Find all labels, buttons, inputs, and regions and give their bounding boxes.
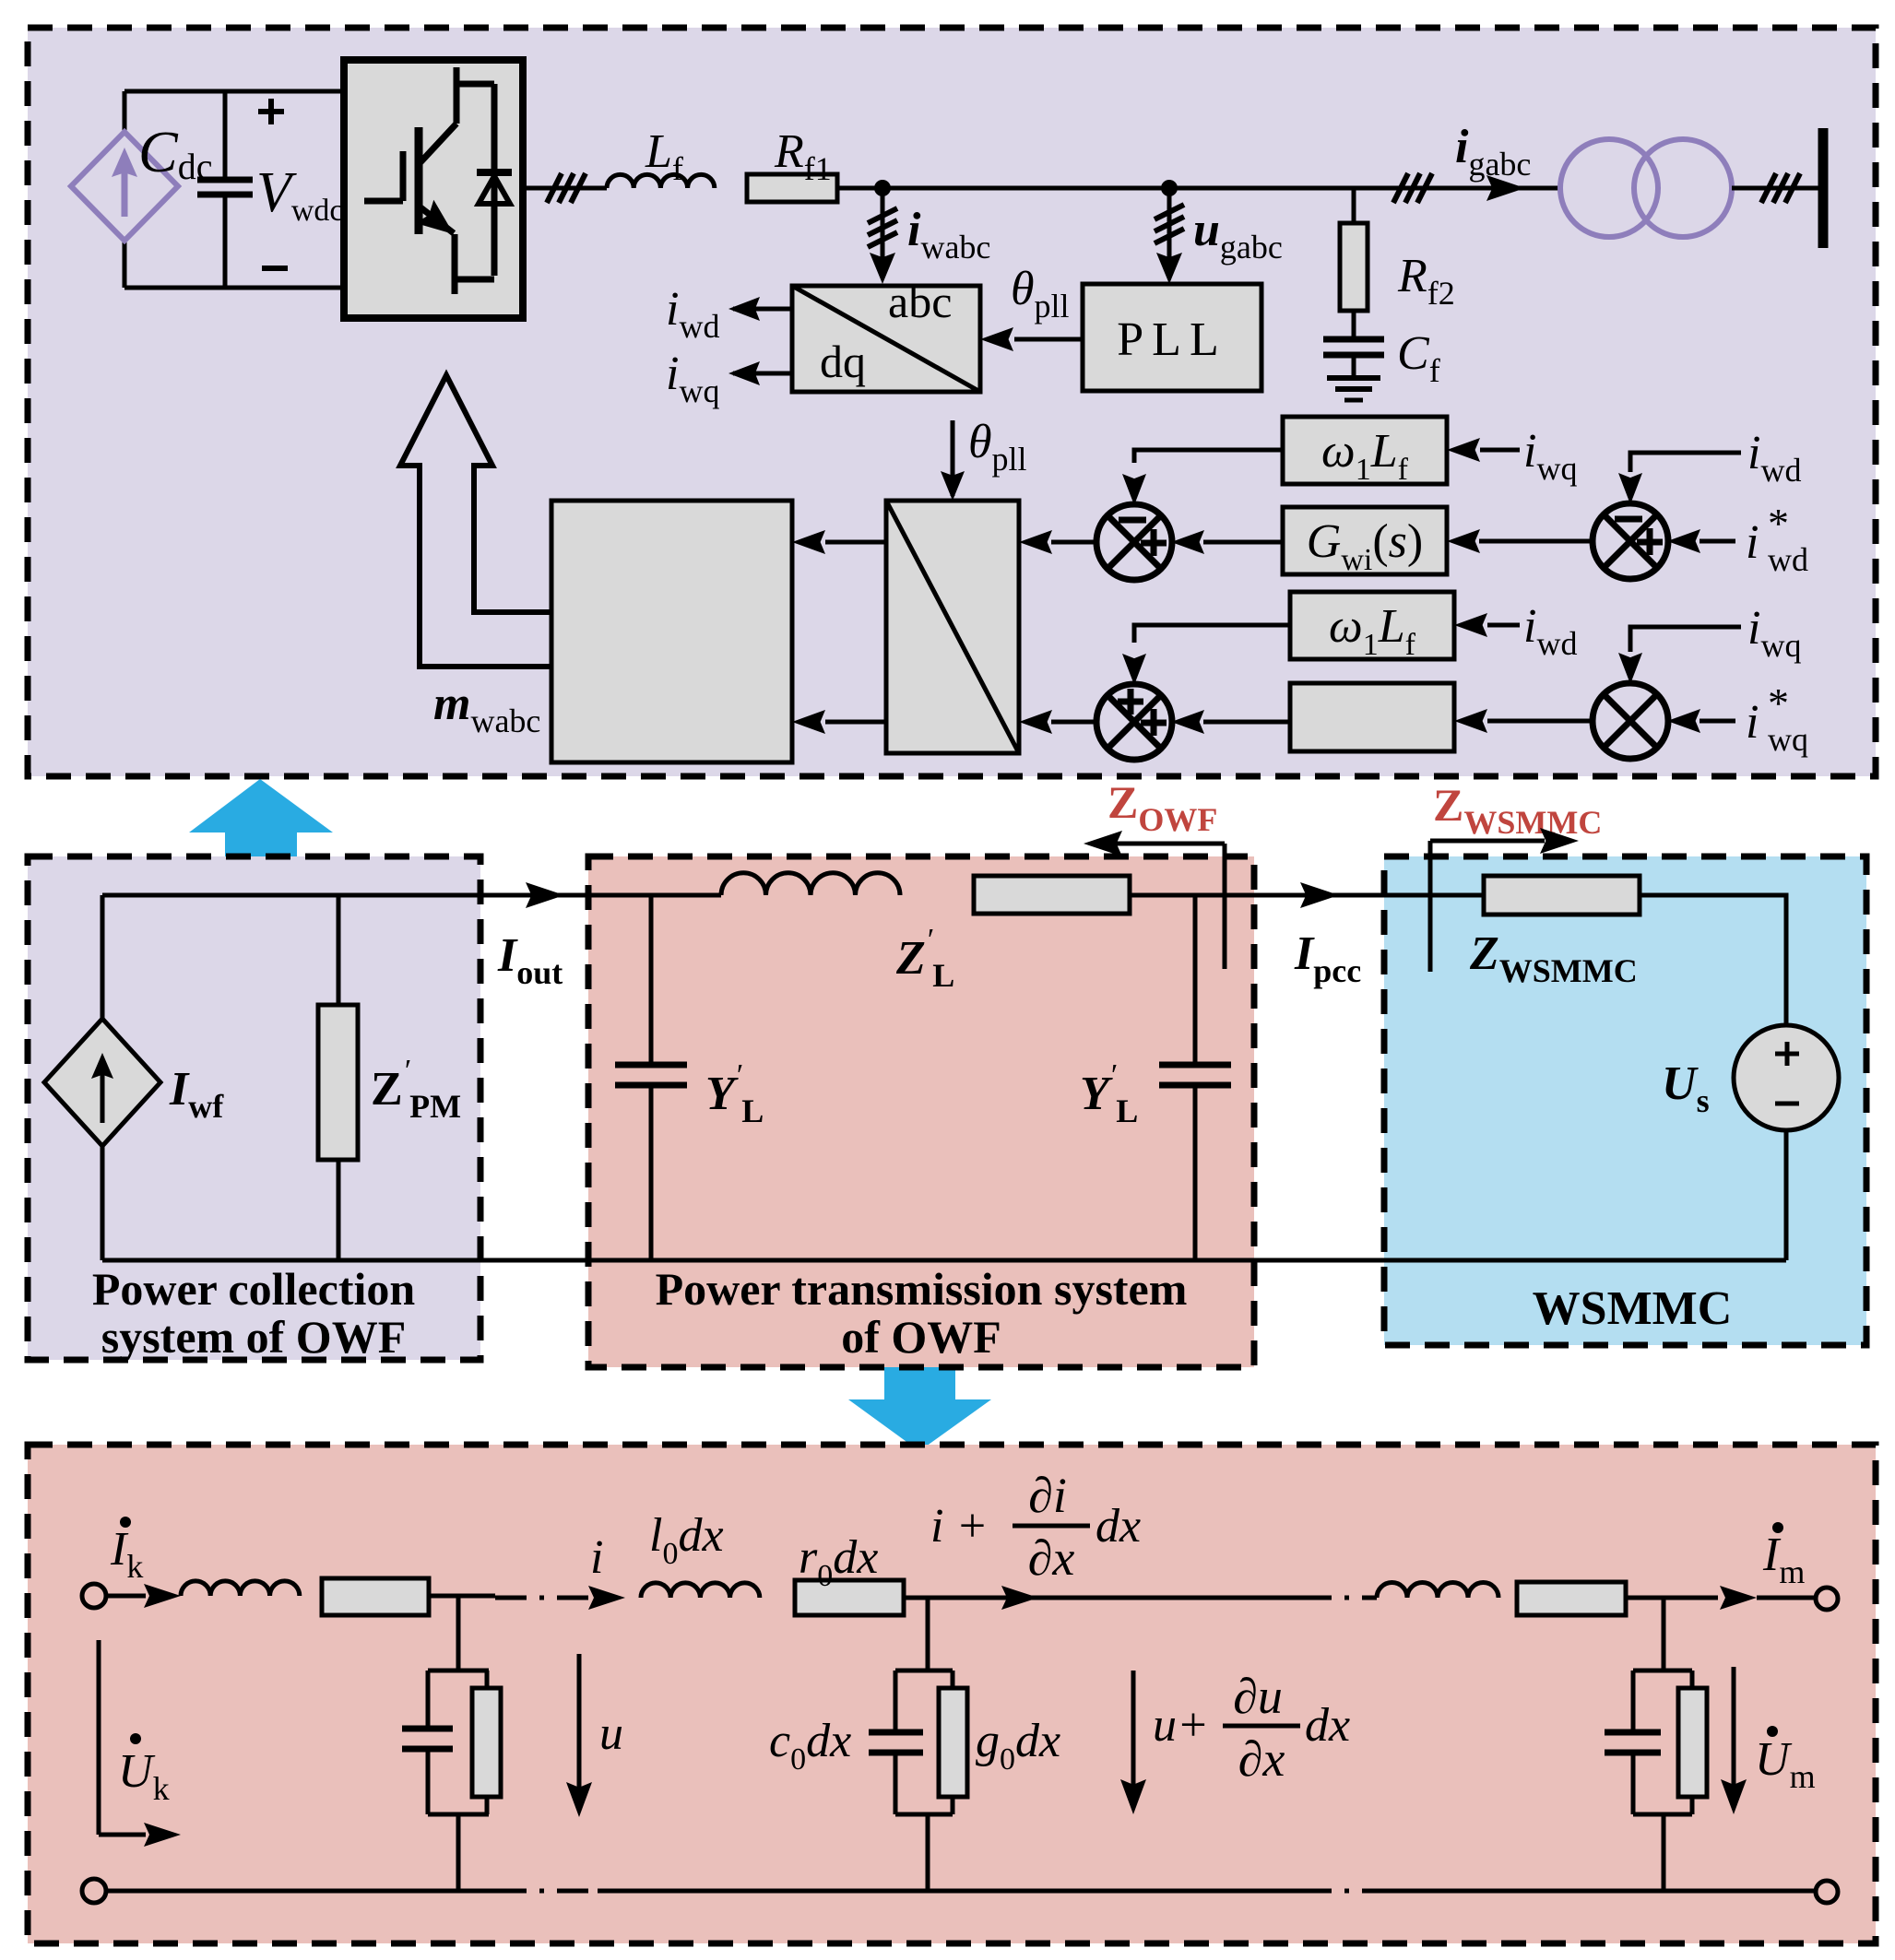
modulation dq->abc box xyxy=(886,501,1019,753)
diode triangle xyxy=(479,176,510,204)
arrow S1 out xyxy=(1019,530,1052,554)
wire: ZPM bottom lead xyxy=(337,1160,341,1260)
capacitor Cdc bottom lead xyxy=(223,196,228,288)
arrow iwd xyxy=(728,297,760,321)
arrow Ipcc xyxy=(1300,882,1339,908)
svg-text:WSMMC: WSMMC xyxy=(1533,1282,1733,1335)
shunt1 bottom stub xyxy=(456,1814,461,1891)
wire: S4 to blank box xyxy=(1487,719,1593,724)
IGBT collector diagonal xyxy=(420,124,456,162)
arrow into w1Lf lower xyxy=(1454,613,1487,637)
wire: blank box to S2 xyxy=(1203,720,1290,725)
current source Iwf (diamond) xyxy=(44,1019,160,1146)
svg-text:∂x: ∂x xyxy=(1028,1530,1075,1586)
wire: iwd* into S3 xyxy=(1700,539,1735,544)
capacitor YL right xyxy=(1159,1062,1231,1069)
wire: YL left top lead xyxy=(649,895,654,1065)
terminal m (bottom) xyxy=(1816,1881,1838,1903)
inductor ZL xyxy=(721,873,900,895)
three-phase marker (bus) xyxy=(1761,173,1776,203)
wire: dash-dot break 1 xyxy=(495,1596,598,1600)
junction3 stub xyxy=(1662,1598,1666,1671)
terminal m (top) xyxy=(1816,1588,1838,1610)
Uk arrow xyxy=(97,1640,101,1835)
wire: YL right top lead xyxy=(1193,895,1198,1065)
svg-text:i +: i + xyxy=(930,1500,989,1553)
svg-text:g0dx: g0dx xyxy=(976,1715,1060,1777)
resistor section1 xyxy=(322,1578,429,1615)
block Gwi(s) xyxy=(1283,507,1447,574)
wire: bottom rail (collection->WSMMC) xyxy=(102,1258,1786,1263)
svg-text:i: i xyxy=(1746,516,1759,569)
three-phase marker (iwabc) xyxy=(868,208,897,223)
wire: Cf to ground xyxy=(1352,355,1356,378)
arrow u+du xyxy=(1131,1671,1136,1793)
svg-text:dx: dx xyxy=(1305,1699,1350,1752)
wire: sec3 to junction3 xyxy=(1626,1596,1718,1600)
wire: w1Lf lower to S2 xyxy=(1134,625,1290,643)
junction2 stub xyxy=(926,1598,930,1671)
wire: collection top rail xyxy=(102,893,721,898)
capacitor c0dx xyxy=(869,1730,923,1736)
arrow Um xyxy=(1732,1667,1736,1793)
wire: ZPM top lead xyxy=(337,895,341,1005)
wire: Rf2 to Cf xyxy=(1352,311,1356,339)
arrow i xyxy=(588,1586,625,1610)
wire: dash-dot break 2 xyxy=(1300,1596,1377,1600)
wire: iwd into w1Lf lower xyxy=(1487,623,1520,628)
wire: bottom rail right xyxy=(1377,1889,1816,1894)
resistor r0dx xyxy=(795,1580,904,1615)
resistor ZL xyxy=(974,876,1130,914)
wire: YL right bottom lead xyxy=(1193,1085,1198,1260)
node: iwabc tap xyxy=(874,180,891,196)
diode vertical xyxy=(492,84,498,276)
shunt2 frame top xyxy=(895,1669,953,1673)
shunt3 frame bottom xyxy=(1633,1812,1692,1817)
svg-text:∂i: ∂i xyxy=(1028,1468,1067,1523)
wire: Iwf top lead xyxy=(101,895,105,1019)
wire: bottom rail mid xyxy=(598,1889,1300,1894)
capacitor Cdc top lead xyxy=(223,91,228,177)
wire: ugabc branch xyxy=(1167,188,1172,277)
bus bar xyxy=(1818,128,1829,248)
Z_OWF measuring arrow xyxy=(1097,842,1225,846)
shunt3 cap branch upper xyxy=(1631,1671,1636,1730)
resistor section3 xyxy=(1517,1582,1626,1615)
wire: ZWSMMC to Us xyxy=(1640,895,1786,1025)
arrow into S4 right xyxy=(1667,709,1700,733)
top panel: converter control system (lavender) xyxy=(28,28,1876,776)
arrow into S1 right... (output of Gwi) xyxy=(1171,530,1204,554)
arrow into blank box xyxy=(1454,709,1487,733)
svg-text:wd: wd xyxy=(1768,541,1808,578)
arrow theta_pll down xyxy=(941,471,965,501)
converter block (VSC with IGBT) xyxy=(344,60,523,318)
wire: after junction2 xyxy=(953,1596,1300,1600)
IGBT top link to diode xyxy=(455,81,494,88)
capacitor Cf xyxy=(1323,337,1384,343)
svg-text:*: * xyxy=(1768,679,1789,726)
three-phase marker (grid) xyxy=(1393,173,1408,203)
voltage source Us xyxy=(1734,1025,1839,1130)
PLL block xyxy=(1083,284,1261,391)
resistor shunt1 xyxy=(472,1688,501,1797)
wire: YL left bottom lead xyxy=(649,1085,654,1260)
wire: S3 to Gwi xyxy=(1479,539,1593,544)
svg-text:dx: dx xyxy=(1096,1500,1141,1553)
shunt3 cap branch lower xyxy=(1631,1753,1636,1814)
arrow into controller q xyxy=(792,710,825,734)
wire: iwq* into S4 xyxy=(1700,719,1735,724)
svg-text:i: i xyxy=(1746,696,1759,749)
arrow u xyxy=(577,1654,582,1796)
shunt1 frame bottom xyxy=(428,1812,489,1817)
wire: ZL to pcc xyxy=(1130,893,1484,898)
wire: mod box to controller (d) xyxy=(825,540,886,545)
summing junction S4 xyxy=(1593,683,1668,759)
arrow into PLL xyxy=(1156,253,1182,284)
arrow into S1 top xyxy=(1122,474,1146,505)
wire: sec1 to junction xyxy=(429,1594,495,1599)
svg-text:wq: wq xyxy=(1768,721,1808,758)
shunt1 cap branch upper xyxy=(426,1671,431,1727)
IGBT emitter pin xyxy=(452,234,458,294)
IGBT emitter arrowhead xyxy=(416,200,454,234)
wire: S1 to mod box xyxy=(1051,540,1097,545)
svg-text:l0dx: l0dx xyxy=(649,1509,724,1571)
inductor l0dx xyxy=(641,1583,760,1598)
wire: DC bottom rail xyxy=(124,286,344,290)
summing junction S2 xyxy=(1096,684,1172,760)
wire: main AC line xyxy=(837,186,1560,191)
wire: theta_pll to modulation box xyxy=(951,420,955,496)
wire: converter output xyxy=(523,186,607,191)
svg-text:abc: abc xyxy=(888,276,952,327)
shunt2 bottom stub xyxy=(926,1814,930,1891)
hollow modulation arrow xyxy=(400,375,551,667)
wire: iwq feedback to S4 xyxy=(1630,627,1741,652)
resistor Rf1 xyxy=(747,174,837,202)
shunt3 bottom stub xyxy=(1662,1814,1666,1891)
svg-text:i: i xyxy=(590,1531,603,1584)
IGBT collector pin xyxy=(454,67,460,124)
arrow S2 out xyxy=(1019,710,1052,734)
svg-text:*: * xyxy=(1768,500,1789,547)
svg-text:Power transmission system: Power transmission system xyxy=(656,1263,1188,1315)
capacitor shunt3 xyxy=(1605,1730,1661,1736)
wire: mod box to controller (q) xyxy=(825,720,886,725)
arrow into S4 top xyxy=(1618,653,1642,684)
inductor section1 xyxy=(181,1581,300,1596)
wire: Iwf bottom lead xyxy=(101,1146,105,1260)
three-phase marker (ugabc) xyxy=(1155,205,1184,219)
resistor g0dx xyxy=(939,1688,967,1797)
label + (Vwdc) xyxy=(258,109,284,114)
panel: distributed line model (pink) xyxy=(28,1445,1876,1943)
wire: iwd feedback to S3 xyxy=(1630,453,1741,472)
block w1Lf (upper) xyxy=(1283,417,1447,484)
inductor Lf xyxy=(607,174,715,188)
shunt2 cap branch lower xyxy=(894,1753,898,1814)
svg-text:∂x: ∂x xyxy=(1238,1731,1285,1787)
shunt2 cap branch upper xyxy=(894,1671,898,1730)
wire: iwd output xyxy=(733,307,792,312)
shunt3 res branch xyxy=(1690,1671,1695,1688)
wire: Rf2 tap xyxy=(1352,188,1356,223)
arrow into abc/dq box xyxy=(870,253,895,284)
arrow Ik xyxy=(144,1584,181,1608)
blue arrow up (to converter detail) xyxy=(189,779,333,861)
arrow into Gwi xyxy=(1447,529,1480,553)
current source Cdc-side diamond (purple) xyxy=(71,132,178,241)
svg-text:of OWF: of OWF xyxy=(841,1311,1001,1363)
node: ugabc tap xyxy=(1161,180,1178,196)
resistor shunt3 xyxy=(1678,1688,1707,1797)
shunt2 frame bottom xyxy=(895,1812,953,1817)
resistor ZWSMMC xyxy=(1484,876,1640,915)
IGBT body bar xyxy=(415,127,423,234)
arrow into w1Lf upper xyxy=(1447,438,1480,462)
wire: r0dx to junction2 xyxy=(904,1596,953,1600)
panel: WSMMC (blue) xyxy=(1384,856,1866,1345)
arrow Iout xyxy=(526,882,564,908)
arrow into S3 right xyxy=(1667,529,1700,553)
arrow into S2 right xyxy=(1171,710,1204,734)
diode cathode bar xyxy=(477,169,512,176)
shunt2 res branch xyxy=(951,1671,955,1688)
arrow igabc xyxy=(1486,175,1525,201)
svg-text:system of OWF: system of OWF xyxy=(101,1311,407,1363)
three-phase marker xyxy=(547,173,562,203)
svg-text:r0dx: r0dx xyxy=(799,1531,878,1593)
wire: source bottom lead xyxy=(123,241,127,288)
transformer (purple circles) xyxy=(1560,139,1658,237)
capacitor shunt1 xyxy=(402,1726,453,1732)
block w1Lf (lower) xyxy=(1290,592,1454,659)
wire: to terminal m xyxy=(1757,1596,1815,1600)
wire: DC top rail xyxy=(124,89,344,94)
wire: w1Lf upper to S1 xyxy=(1134,450,1283,463)
wire: bottom rail left xyxy=(106,1889,495,1894)
arrow into S3 top xyxy=(1618,473,1642,504)
IGBT gate xyxy=(364,151,403,201)
svg-text:Power collection: Power collection xyxy=(92,1263,416,1315)
terminal k (bottom) xyxy=(82,1879,106,1903)
panel: power transmission system of OWF (pink) xyxy=(588,856,1254,1367)
capacitor Cdc xyxy=(197,177,253,183)
arrow Im xyxy=(1720,1586,1757,1610)
inductor section3 xyxy=(1377,1583,1498,1599)
IGBT emitter diagonal xyxy=(420,207,454,233)
shunt1 res branch xyxy=(485,1671,490,1688)
wire: iwq into w1Lf upper xyxy=(1480,448,1520,453)
arrow iwq xyxy=(728,361,760,385)
wire: S2 to mod box xyxy=(1051,720,1097,725)
resistor ZPM xyxy=(318,1005,358,1160)
wire: iwq output xyxy=(733,372,792,376)
Z_WSMMC measuring arrow xyxy=(1430,839,1545,844)
summing junction S3 xyxy=(1593,503,1668,579)
blue arrow down (to line detail) xyxy=(848,1367,991,1451)
IGBT bottom link to diode xyxy=(455,277,494,283)
ground xyxy=(1327,375,1380,381)
wire: theta_pll to abc/dq xyxy=(1014,337,1083,342)
svg-text:u: u xyxy=(599,1707,623,1760)
arrow i+di xyxy=(1001,1586,1038,1610)
arrow into S2 top xyxy=(1122,654,1146,685)
wire: Ik lead xyxy=(106,1594,146,1599)
summing junction S1 xyxy=(1096,504,1172,580)
resistor Rf2 xyxy=(1340,223,1368,311)
shunt1 cap branch lower xyxy=(426,1749,431,1814)
svg-text:dq: dq xyxy=(820,336,866,387)
panel: power collection system of OWF (lavender) xyxy=(28,856,480,1360)
terminal k (top) xyxy=(82,1584,106,1608)
abc/dq measurement box U1 xyxy=(792,286,980,392)
shunt1 frame top xyxy=(428,1669,489,1673)
arrow into controller d xyxy=(792,530,825,554)
arrow theta_pll xyxy=(980,327,1013,351)
block blank (q current ctrl) xyxy=(1290,683,1454,751)
controller box (blank) xyxy=(551,501,792,762)
wire: transformer to bus xyxy=(1732,186,1818,191)
label - (Vwdc) xyxy=(262,266,288,271)
wire: bottom rail dash-dot 1 xyxy=(495,1889,598,1894)
shunt1 top stub xyxy=(456,1596,461,1671)
shunt3 frame top xyxy=(1633,1669,1692,1673)
svg-text:u+: u+ xyxy=(1153,1699,1209,1752)
svg-text:c0dx: c0dx xyxy=(769,1715,851,1777)
wire: Us to bottom rail xyxy=(1784,1130,1789,1260)
svg-text:∂u: ∂u xyxy=(1233,1669,1283,1724)
wire: source top lead xyxy=(123,91,127,132)
wire: iwabc branch xyxy=(881,188,885,277)
capacitor YL left xyxy=(615,1062,687,1069)
wire: Gwi to S1 xyxy=(1203,540,1283,545)
wire: bottom rail dash-dot 2 xyxy=(1300,1889,1377,1894)
svg-text:PLL: PLL xyxy=(1117,313,1226,366)
